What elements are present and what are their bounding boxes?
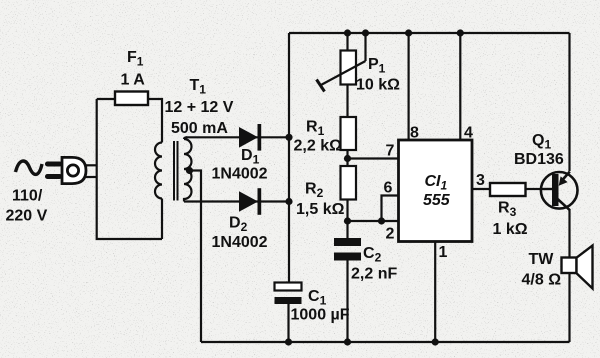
- diode D1: [239, 124, 261, 151]
- wire: plug lead upper: [86, 164, 97, 166]
- node: C2 ground: [344, 338, 351, 345]
- wire: emitter supply vertical: [568, 33, 570, 171]
- wire: pin 7: [348, 157, 399, 159]
- node: rail P1 chain: [344, 29, 351, 36]
- svg-text:1 A: 1 A: [121, 72, 146, 89]
- svg-text:500 mA: 500 mA: [171, 120, 228, 137]
- node: rail wiper: [362, 29, 369, 36]
- wire: plug lead lower: [86, 176, 97, 178]
- svg-text:4: 4: [464, 125, 473, 142]
- wire: cathode bus vertical down to C1: [288, 33, 290, 283]
- wire: bottom ground rail: [201, 341, 570, 343]
- plug body: [62, 157, 86, 183]
- node: D2 junction: [285, 198, 292, 205]
- svg-text:555: 555: [423, 192, 451, 209]
- plug prong lower: [45, 174, 62, 179]
- svg-text:BD136: BD136: [514, 151, 564, 168]
- wire: pin 8: [408, 33, 410, 140]
- diode D2: [239, 188, 261, 215]
- wire: speaker to bottom rail: [568, 273, 570, 342]
- wire: R3 to base: [526, 188, 542, 190]
- svg-text:1N4002: 1N4002: [212, 234, 268, 251]
- wire: C1 bottom lead: [287, 304, 289, 342]
- wire: R1 bottom to R2 top: [346, 150, 348, 166]
- node: R1-R2 junction: [344, 155, 351, 162]
- fuse F1: [115, 92, 148, 106]
- svg-text:12 + 12 V: 12 + 12 V: [165, 99, 234, 116]
- node: pin1 ground: [432, 338, 439, 345]
- wire: primary bottom lead: [161, 199, 163, 240]
- svg-text:2,2 kΩ: 2,2 kΩ: [294, 138, 343, 155]
- wire: center tap to bottom rail: [189, 171, 201, 343]
- transformer T1 primary winding: [155, 143, 162, 199]
- op IC CI1 555: [399, 140, 473, 242]
- node: D1 junction: [285, 134, 292, 141]
- wire: fuse left lead: [97, 98, 115, 100]
- node: rail pin4: [457, 29, 464, 36]
- wire: C2 bottom lead: [346, 261, 348, 343]
- wire: top supply rail: [289, 32, 570, 34]
- svg-text:1000 µF: 1000 µF: [291, 306, 350, 323]
- svg-text:8: 8: [410, 125, 419, 142]
- wire: mains loop left vertical: [97, 99, 162, 239]
- transistor Q1: [541, 172, 578, 211]
- node: rail pin8: [405, 29, 412, 36]
- capacitor C1 (electrolytic): [275, 283, 302, 305]
- svg-text:2,2 nF: 2,2 nF: [351, 266, 397, 283]
- node: pin6 junction: [378, 217, 385, 224]
- wire: rail to P1 top: [346, 33, 348, 51]
- node: C1 ground: [285, 338, 292, 345]
- plug circle: [67, 165, 78, 176]
- AC sine symbol: [16, 161, 43, 174]
- transformer center tap node: [186, 167, 193, 174]
- plug prong upper: [45, 162, 62, 167]
- transformer T1 core: [174, 141, 178, 201]
- svg-text:1N4002: 1N4002: [212, 166, 268, 183]
- node: R2-C2 junction: [344, 217, 351, 224]
- potentiometer P1: [317, 51, 366, 92]
- capacitor C2: [334, 238, 361, 261]
- wire: pin 4: [459, 33, 461, 140]
- resistor R3: [490, 183, 526, 196]
- wire: pin 1: [434, 242, 436, 343]
- svg-text:220 V: 220 V: [6, 208, 48, 225]
- wire: P1 wiper feed: [364, 33, 366, 61]
- svg-text:10 kΩ: 10 kΩ: [356, 77, 400, 94]
- wire: R2 bottom to C2 top: [346, 200, 348, 239]
- svg-text:3: 3: [476, 172, 485, 189]
- wire: pin 2: [348, 220, 399, 222]
- speaker TW: [562, 246, 593, 289]
- resistor R1: [341, 117, 357, 150]
- svg-text:6: 6: [384, 180, 393, 197]
- wire: collector to speaker: [568, 210, 570, 258]
- wire: secondary top corner: [184, 137, 187, 139]
- resistor R2: [341, 166, 357, 200]
- svg-text:110/: 110/: [12, 188, 43, 205]
- svg-text:1: 1: [439, 244, 448, 261]
- transformer T1 secondary winding: [184, 139, 192, 202]
- wire: pin 3 to R3: [472, 188, 490, 190]
- wire: D1 line secondary top to cathode bus: [186, 136, 289, 138]
- svg-text:4/8 Ω: 4/8 Ω: [522, 272, 562, 289]
- wire: P1 bottom to R1 top: [346, 85, 348, 118]
- wire: fuse right lead to primary top: [148, 99, 162, 143]
- svg-text:7: 7: [386, 143, 395, 160]
- wire: D2 line secondary bottom to cathode bus: [184, 200, 289, 202]
- svg-text:1,5 kΩ: 1,5 kΩ: [296, 201, 345, 218]
- wire: pin 6: [382, 196, 399, 222]
- svg-text:1 kΩ: 1 kΩ: [493, 221, 528, 238]
- svg-text:TW: TW: [529, 251, 555, 268]
- svg-text:2: 2: [386, 226, 395, 243]
